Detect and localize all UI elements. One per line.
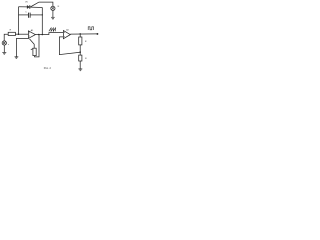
wire pot bottom loop to output (35, 35, 40, 57)
ground (op-amp) (15, 57, 19, 59)
potentiometer wiper diagonal (30, 39, 35, 48)
potentiometer R4 body (33, 48, 36, 55)
wire output DA2 (70, 33, 97, 35)
potentiometer arrow tick (31, 49, 33, 50)
wire junction to R2 (79, 34, 81, 37)
op-amp DA2 (63, 31, 70, 39)
op-amp DA1 (28, 31, 35, 39)
ground (divider) (78, 69, 82, 71)
node feedback junction (18, 33, 20, 35)
svg-text:Рис. 2: Рис. 2 (44, 67, 52, 70)
wire R1 to inverting input (15, 33, 28, 35)
wire capacitor branch left (19, 14, 29, 16)
node output junction B (42, 34, 44, 36)
wire R2 to R3 (79, 45, 81, 55)
wire top branch to diode anode (19, 6, 28, 8)
wire top right to lamp (39, 2, 53, 6)
wire source up to R1 (4, 34, 8, 41)
wire non-inverting input to ground (16, 39, 28, 57)
square wave icon (88, 27, 93, 30)
output terminal (96, 33, 98, 35)
node divider tap (79, 51, 81, 53)
ground (lamp) (51, 17, 55, 19)
wire capacitor branch right (31, 14, 43, 16)
source G1 (2, 41, 6, 45)
wire R3 to ground (79, 61, 81, 69)
op-amp DA1 input marks (28, 33, 31, 36)
wire source down (3, 45, 5, 52)
wire lamp to ground (52, 11, 54, 18)
wire DA2 lower input to divider tap (59, 37, 80, 55)
op-amp DA2 input marks (63, 32, 66, 36)
resistor R1 (8, 32, 15, 35)
node output junction A (38, 34, 40, 36)
svg-text:VD: VD (25, 2, 28, 4)
wire feedback left vertical (18, 7, 20, 35)
wire output DA1 with jog (35, 33, 63, 35)
capacitor C1 (28, 13, 30, 18)
diode VS1 (27, 5, 30, 9)
resistor R2 (79, 37, 82, 45)
wire gate diagonal (30, 2, 39, 7)
lamp HL1 (51, 6, 55, 10)
wire feedback right vertical (41, 8, 43, 35)
resistor R3 (79, 55, 82, 61)
ground (source) (2, 53, 6, 55)
sawtooth waveform icon (49, 28, 56, 31)
wire diode cathode to right corner (30, 6, 42, 8)
node cap-diode junction (42, 14, 43, 15)
node divider top junction (79, 33, 81, 35)
